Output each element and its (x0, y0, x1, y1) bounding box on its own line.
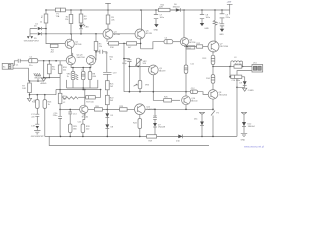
capacitor C2 electrolytic horizontal (29, 57, 38, 67)
svg-text:GND: GND (204, 28, 209, 30)
svg-text:2SC5200: 2SC5200 (220, 46, 229, 48)
resistor R14 x213 lower (206, 67, 215, 91)
svg-text:22k: 22k (63, 70, 66, 72)
wire Q12 emitter down (139, 115, 141, 119)
svg-text:www.wzory.net.pl: www.wzory.net.pl (244, 144, 264, 148)
diode D6 on rail (170, 4, 184, 12)
wire C5 to U1 (173, 41, 181, 43)
svg-text:BC546: BC546 (75, 44, 82, 46)
fuse F1 (55, 8, 65, 18)
svg-text:BC546: BC546 (114, 34, 121, 36)
wire Q2 collector up (72, 53, 74, 57)
capacitor C1 input series (16, 59, 29, 67)
svg-text:22k: 22k (65, 19, 68, 21)
svg-text:BD139: BD139 (146, 33, 153, 35)
earth symbol below diodes (24, 36, 40, 42)
resistor R26 x82.9 (81, 124, 90, 136)
wire x184 rail to U1 (183, 10, 185, 38)
svg-text:R17 100: R17 100 (86, 101, 94, 103)
svg-text:BD139: BD139 (159, 70, 166, 72)
transistor Q9 driver (148, 65, 166, 75)
capacitor C19 column x106.8 (103, 72, 117, 80)
wire x124 column down (123, 43, 125, 91)
svg-text:R27 10: R27 10 (235, 63, 242, 65)
wire y81 ground link (28, 80, 43, 82)
transistor U1 (180, 38, 196, 46)
wire y94.7 elbow to y89.5 (55, 90, 57, 95)
svg-text:1k: 1k (67, 76, 69, 78)
wire base rail y33.8 (46, 33, 135, 35)
resistor R3 column x81 (79, 10, 88, 23)
inductor L2 detour (60, 90, 86, 105)
diode D11 x202 (200, 122, 204, 137)
resistor R16 x44.8 (43, 95, 52, 137)
svg-text:+42V: +42V (227, 2, 232, 4)
wire Q10 emitter to y108.8 (185, 105, 187, 110)
ground GND x202 (200, 23, 210, 30)
svg-text:10R: 10R (159, 7, 163, 9)
svg-text:10R: 10R (22, 88, 26, 90)
svg-text:1N4148: 1N4148 (158, 127, 166, 129)
power flag +V right (227, 2, 233, 15)
input connector K1 (2, 63, 13, 69)
capacitor C6 on x129 column (122, 58, 131, 92)
resistor R8 tail (88, 68, 97, 80)
wire y43.6 R4 feed (46, 34, 65, 44)
svg-text:GROUNDPOINT: GROUNDPOINT (34, 77, 50, 79)
wire x96 down to Q3 (95, 51, 97, 61)
wire Q2 Q3 emitter join y67.6 (71, 64, 91, 68)
wire Q11 base from x60.1 (60, 108, 80, 110)
ground GND x156 (154, 24, 159, 31)
svg-text:GND: GND (219, 34, 224, 36)
svg-text:100n: 100n (160, 17, 164, 19)
transistor Q4 (103, 29, 121, 39)
resistor R12 base stopper (197, 43, 209, 48)
wire Q1 emitter to Q2 (71, 47, 73, 56)
wire output node y67 (212, 66, 252, 68)
diode D2 on wire y33.8 (30, 32, 46, 40)
wire terminal return (236, 71, 252, 137)
ground GND x37.3 (31, 131, 45, 139)
capacitor C18 x37.3 (31, 124, 39, 130)
svg-text:LED: LED (85, 27, 89, 29)
svg-text:CGND: CGND (248, 90, 254, 92)
wire Q4 base from rail y33.8 (done) ; Q4 emitter down (106, 39, 108, 42)
node dots y81 (29, 80, 39, 82)
capacitor C10 column x222 (220, 24, 224, 29)
node dots y33.8 (45, 28, 97, 35)
wire Q12 collector right y108.8 (145, 109, 214, 111)
capacitor C15 x82.9 column (78, 114, 85, 125)
wire lower return y145.5 (49, 136, 209, 145)
wire Q5 emitter down to node (140, 38, 142, 49)
zobel resistor R28 (229, 67, 245, 83)
svg-text:2xBC556: 2xBC556 (77, 57, 86, 59)
preset VR2 (135, 58, 147, 66)
diode D10 on bottom rail (176, 135, 183, 143)
power flag -V x244 (241, 112, 247, 122)
svg-text:22k: 22k (52, 69, 55, 71)
capacitor C3 compensation (95, 50, 114, 73)
ground GND x222 (219, 29, 224, 36)
inductor L3 output (231, 57, 243, 66)
capacitor C5 horizontal (164, 38, 173, 44)
wire +V top rail (46, 9, 230, 11)
capacitor C9 electrolytic column x222 (220, 10, 230, 24)
svg-text:100n: 100n (206, 17, 210, 19)
wire node x124 y43.4 (119, 43, 127, 45)
wire y91.7 lower rail (124, 91, 190, 93)
capacitor C8 with ground, column x202 (200, 10, 210, 23)
wire Q7 collector up to thermistor column (214, 40, 217, 43)
wire y77.5 input return (43, 77, 60, 79)
wire Q9 emitter (153, 75, 163, 101)
node junction dots on top rail (45, 9, 223, 11)
diode D5 x107.3 column (105, 109, 114, 124)
trimpot VR1 tail (67, 68, 79, 80)
wire Q7 emitter down (212, 51, 214, 55)
resistor R11 horizontal y43.4 (127, 42, 141, 49)
diode D8 x107.3 lower (105, 124, 114, 136)
wire input node to LTP base (38, 60, 66, 62)
svg-text:GND: GND (241, 139, 246, 141)
power flag -V x202 (194, 112, 205, 121)
svg-text:BD140: BD140 (191, 100, 198, 102)
resistor R17 detour (86, 90, 101, 104)
wire y89.5 feedback rail (56, 89, 101, 91)
resistor R21 connects y89.5 to y108.8 (105, 95, 114, 109)
diode D7 x155.5 (153, 119, 166, 136)
resistor R23 horizontal to Q12 base (120, 106, 135, 111)
svg-text:GROUNDPOINT: GROUNDPOINT (24, 40, 40, 42)
resistor R1 column x46 (40, 10, 48, 24)
tail box wires (67, 80, 98, 90)
resistor R100 on rail (159, 5, 171, 12)
ground arrow CGND (243, 88, 255, 92)
resistor R7 ground lift (22, 81, 31, 93)
wire R9 to Q4 (107, 24, 109, 29)
transistor Q7 output NPN (208, 41, 229, 52)
resistor R6 input shunt (48, 61, 56, 78)
transistor Q12 output PNP (135, 104, 156, 115)
diode D4 x70.2 column (68, 109, 77, 124)
diode D1 on wire y28.5 (30, 23, 46, 30)
wire C11 to y94 (185, 73, 187, 91)
resistor R19 column x60.1 lower (53, 90, 68, 137)
speaker terminal K2 (252, 63, 263, 72)
transistor Q3 LTP right (86, 56, 95, 65)
resistor R5 column x96 (94, 34, 102, 56)
capacitor C13 x155.5 (153, 109, 158, 120)
wire input pin2 ground riser (13, 68, 28, 81)
wire Q1 collector to rail (71, 34, 73, 40)
pot VR3 (134, 66, 150, 91)
capacitor C4 tail (81, 68, 85, 80)
thermistor/fusible link column x215 (213, 10, 220, 41)
transistor Q11 (80, 105, 89, 118)
svg-text:GROUNDPNT: GROUNDPNT (31, 136, 45, 138)
node dots input (43, 60, 57, 62)
svg-text:1k: 1k (40, 22, 42, 24)
wire Q5 collector to rail (141, 10, 143, 30)
wire U1 emitter to Q7 base (185, 46, 197, 48)
resistor R4 horizontal (50, 44, 58, 53)
zobel diode D9 (237, 77, 247, 88)
ground GND x244 (241, 133, 248, 141)
svg-text:220u: 220u (226, 17, 230, 19)
resistor R21a (105, 81, 114, 96)
svg-text:220u: 220u (53, 115, 57, 117)
capacitor C17 x37.3 (31, 114, 39, 124)
resistor R27 parallel output (234, 63, 242, 68)
svg-text:22k: 22k (111, 20, 114, 22)
resistor R20 horizontal y108.2 (88, 106, 120, 111)
LED D3 column x81 (79, 23, 89, 34)
chassis ground symbol (34, 73, 50, 81)
resistor R15 x37.3 (32, 95, 39, 115)
svg-text:AGND: AGND (41, 82, 47, 85)
svg-text:22u: 22u (29, 65, 32, 67)
svg-text:1N4004: 1N4004 (248, 126, 256, 128)
wire left loop x30 (29, 29, 31, 37)
wire y94.7 left ground rail (29, 94, 56, 96)
resistor R2 column x71 (65, 10, 73, 34)
svg-text:BC556: BC556 (189, 42, 196, 44)
svg-text:bias: bias (187, 47, 191, 49)
svg-text:GND: GND (154, 29, 159, 31)
svg-text:BC546: BC546 (82, 117, 89, 119)
resistor R29 on bottom rail (147, 135, 157, 143)
svg-text:1k: 1k (48, 104, 50, 106)
transistor Q10 driver lower (182, 92, 199, 105)
capacitor C7 with ground, column x156 (154, 10, 164, 24)
label Q2 Q3 BC556 (77, 55, 86, 59)
resistor R25 x70.2 (68, 124, 77, 136)
transistor Q1 (65, 39, 82, 48)
power flag +V x108 (105, 3, 111, 10)
wire x46 to node (45, 23, 47, 34)
diode D12 x244 (242, 122, 255, 133)
wire bias y66.4 (129, 66, 151, 68)
svg-text:22n: 22n (31, 117, 34, 119)
resistor R24b horizontal (164, 97, 180, 102)
svg-text:2SC5200: 2SC5200 (219, 95, 228, 97)
label box U1 (186, 46, 195, 50)
wire input pin1 (13, 61, 18, 66)
wire Q8 emitter down with fuse (211, 99, 220, 136)
resistor R10 horizontal y43.4 (107, 42, 119, 49)
transistor Q5 (135, 29, 153, 39)
transistor Q8 output lower NPN (208, 90, 228, 100)
wire bottom ground rail y136.4 (45, 136, 237, 138)
transistor Q2 LTP left (66, 56, 75, 65)
svg-text:1k: 1k (110, 59, 112, 61)
svg-text:22k: 22k (99, 46, 102, 48)
svg-text:1N4004: 1N4004 (173, 6, 181, 8)
wire Q11 collector (84, 90, 86, 106)
capacitor C11 on x187 column (184, 47, 195, 74)
resistor R18 column x60.1 upper (58, 61, 67, 90)
ground arrow below R7 (27, 93, 38, 102)
resistor R13 emitter x213 (203, 55, 215, 66)
resistor R9 column x108 (106, 10, 115, 24)
resistor R24 below Q12 (133, 119, 142, 137)
wire Q5 emitter to U1 base (141, 42, 164, 49)
ground arrow input x43.7 (41, 61, 47, 85)
capacitor C12 series y91.7 (190, 88, 208, 95)
